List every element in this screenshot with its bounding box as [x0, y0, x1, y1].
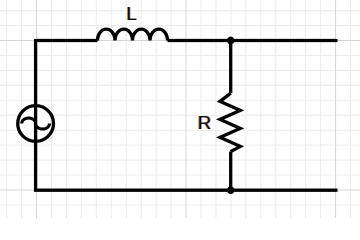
- node junction top: [227, 37, 235, 45]
- inductor L: [98, 29, 168, 40]
- resistor R: [220, 93, 240, 151]
- wire: [34, 189, 338, 192]
- svg-text:R: R: [198, 112, 211, 133]
- wire: [34, 41, 37, 191]
- ac source V1 circle: [18, 106, 54, 142]
- node junction bottom: [227, 186, 235, 194]
- wire: [34, 39, 98, 42]
- label R: [197, 112, 212, 133]
- wire: [229, 152, 232, 191]
- ac source V1 sine: [22, 118, 50, 129]
- wire: [168, 39, 338, 42]
- label L: [126, 3, 138, 24]
- svg-text:L: L: [126, 3, 136, 24]
- wire: [229, 41, 232, 94]
